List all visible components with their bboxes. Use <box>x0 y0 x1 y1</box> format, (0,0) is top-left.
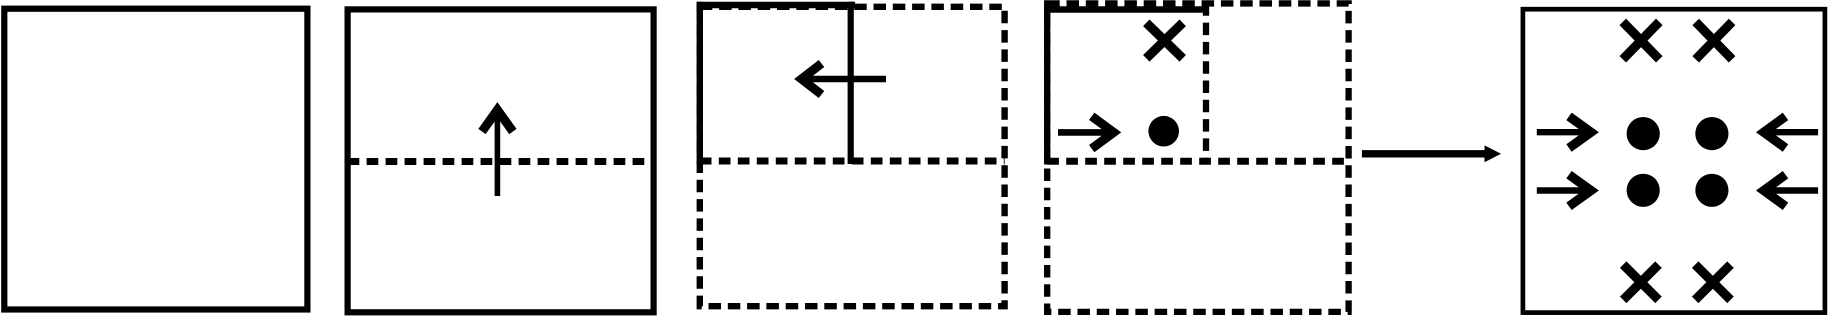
square 3 outer dashed border <box>700 7 1005 306</box>
square 5 right-pointing arrow row2 shaft <box>1537 187 1592 193</box>
connector arrow shaft <box>1362 150 1487 157</box>
square 5 dot row2 left <box>1627 174 1660 207</box>
square 4 flap right edge (dashed vertical) <box>1203 3 1209 160</box>
square 5 top X mark left <box>1623 22 1660 59</box>
square 4 outer dashed border <box>1047 3 1348 311</box>
square 2 horizontal fold line (dashed) <box>348 158 654 165</box>
square 2 up arrow head <box>482 110 513 132</box>
square 4 middle dashed fold line <box>1047 158 1348 165</box>
square 4 punch dot <box>1148 116 1179 147</box>
square 5 border (unfolded result) <box>1523 9 1825 312</box>
square 5 dot row1 right <box>1695 117 1728 150</box>
square 5 left-pointing arrow row2 head <box>1764 175 1786 207</box>
square 3 middle dashed fold line <box>700 158 1005 165</box>
square 4 punch X mark <box>1146 23 1182 59</box>
square 3 folded flap top edge (solid) <box>697 2 855 8</box>
square 5 bottom X mark left <box>1623 265 1658 300</box>
square 2 up arrow shaft <box>495 112 501 196</box>
square 4 right arrow head <box>1092 116 1114 148</box>
square 5 left-pointing arrow row2 shaft <box>1764 187 1819 193</box>
square 4 folded flap top edge (solid) <box>1044 6 1207 12</box>
square 2 border <box>348 9 654 312</box>
square 5 top X mark right <box>1696 22 1732 59</box>
square 5 right-pointing arrow row1 head <box>1569 116 1591 148</box>
square 3 left arrow head <box>802 64 822 95</box>
square 5 left-pointing arrow row1 shaft <box>1764 129 1819 135</box>
square 5 dot row2 right <box>1695 174 1728 207</box>
square 3 folded flap right edge (solid vertical) <box>848 2 854 164</box>
connector arrow head <box>1485 145 1502 162</box>
square 5 dot row1 left <box>1627 117 1660 150</box>
square 5 left-pointing arrow row1 head <box>1764 116 1786 148</box>
square 4 folded flap left edge (solid) <box>1044 7 1050 165</box>
square 5 right-pointing arrow row2 head <box>1569 175 1591 207</box>
square 3 folded flap left edge (solid) <box>697 2 703 165</box>
square 5 right-pointing arrow row1 shaft <box>1537 129 1592 135</box>
square 3 left arrow shaft <box>800 76 886 83</box>
square 5 bottom X mark right <box>1695 265 1730 300</box>
square 4 right arrow shaft <box>1058 129 1112 136</box>
square 1 (unfolded blank sheet) <box>4 9 307 310</box>
